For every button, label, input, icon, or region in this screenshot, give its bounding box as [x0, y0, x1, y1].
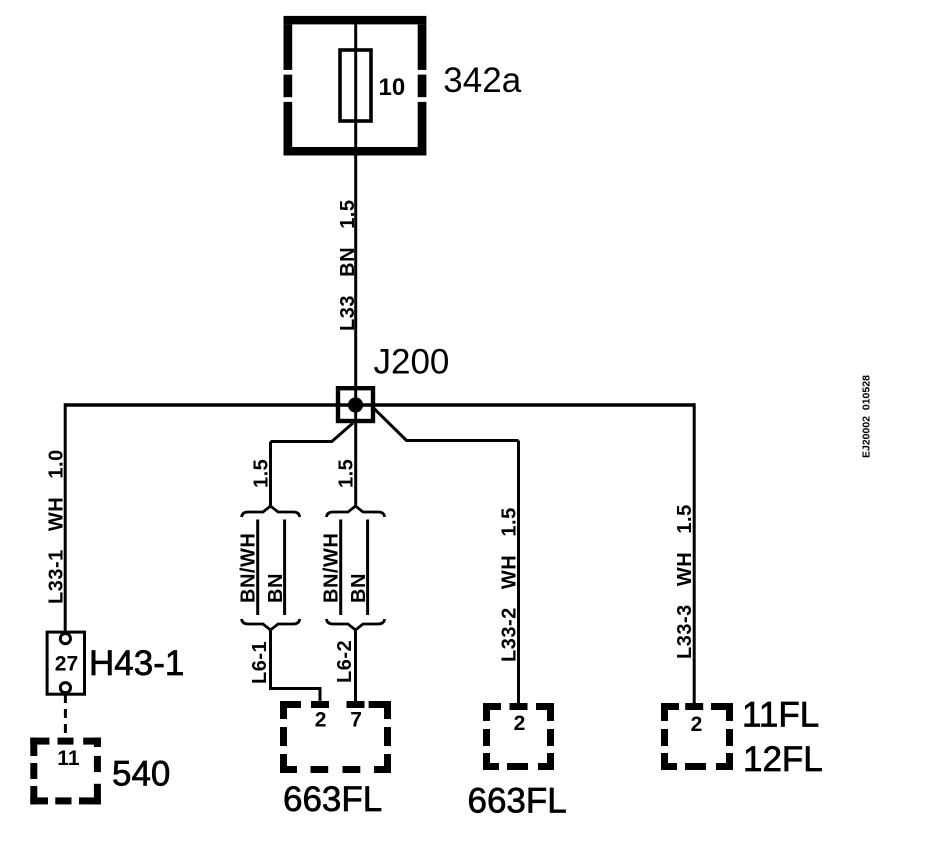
svg-text:342a: 342a: [443, 61, 521, 100]
svg-text:L33 BN 1.5: L33 BN 1.5: [337, 200, 359, 332]
wire vertical L33-2 drop: [517, 441, 520, 705]
svg-text:11FL: 11FL: [742, 696, 819, 735]
wire diagonal from junction to left bundle branch: [271, 423, 354, 442]
svg-text:11: 11: [57, 747, 80, 770]
junction dot: [348, 397, 363, 412]
svg-text:BN/WH: BN/WH: [238, 533, 260, 603]
svg-text:L33-2 WH 1.5: L33-2 WH 1.5: [499, 507, 521, 662]
svg-text:L33-3 WH 1.5: L33-3 WH 1.5: [674, 504, 696, 659]
svg-text:J200: J200: [374, 343, 450, 382]
cable sheath brace top (left bundle): [242, 506, 300, 517]
svg-text:2: 2: [514, 712, 526, 735]
svg-text:2: 2: [691, 713, 703, 736]
svg-text:EJ20002 010528: EJ20002 010528: [861, 375, 873, 458]
wire L6-1 below left bundle: [271, 630, 321, 702]
svg-text:12FL: 12FL: [743, 740, 823, 779]
svg-text:BN/WH: BN/WH: [321, 533, 343, 603]
terminal bar into 540: [58, 738, 74, 745]
conductor BN/WH (left bundle): [256, 520, 259, 616]
svg-text:H43-1: H43-1: [89, 644, 184, 683]
wire vertical L33-3 drop: [693, 403, 696, 704]
svg-text:L6-1: L6-1: [249, 641, 271, 684]
wire diagonal from junction to right L33-2 branch: [373, 408, 519, 441]
conductor BN (right bundle): [366, 520, 369, 616]
svg-text:2: 2: [315, 709, 327, 732]
connector H43-1 body: [47, 632, 84, 694]
fuse box 342a outline: [284, 16, 427, 156]
wire L33 vertical from fuse box through fuse to junction J200: [354, 16, 357, 506]
terminal bar pin 2 into 11FL/12FL box: [685, 703, 703, 710]
svg-text:1.5: 1.5: [336, 459, 358, 488]
component box 663FL left (dashed): [280, 701, 391, 773]
terminal bar pin 7 into 663FL (left): [347, 701, 365, 708]
cable sheath brace top (right bundle): [327, 506, 385, 517]
cable sheath brace bottom (left bundle): [242, 619, 300, 630]
connector H43-1 top terminal circle: [60, 634, 70, 644]
wire L6-2 below right bundle: [354, 630, 357, 702]
connector H43-1 bottom terminal circle: [60, 683, 70, 693]
junction box J200: [338, 388, 373, 421]
svg-text:1.5: 1.5: [251, 459, 273, 488]
fuse element 10: [340, 50, 371, 121]
svg-text:L6-2: L6-2: [334, 640, 356, 683]
svg-text:27: 27: [55, 653, 78, 676]
svg-text:663FL: 663FL: [468, 782, 567, 821]
dashed wire from H43-1 to component 540: [64, 694, 67, 739]
svg-text:540: 540: [112, 755, 170, 794]
svg-text:663FL: 663FL: [283, 780, 382, 819]
main horizontal bus wire: [65, 403, 694, 406]
component box 540 (dashed): [30, 738, 101, 805]
svg-text:10: 10: [379, 74, 406, 101]
wire vertical into left cable bundle: [269, 442, 272, 507]
conductor BN (left bundle): [283, 520, 286, 616]
terminal bar pin 2 into 663FL (right): [510, 703, 528, 710]
conductor BN/WH (right bundle): [339, 520, 342, 616]
cable sheath brace bottom (right bundle): [327, 619, 385, 630]
svg-text:L33-1 WH 1.0: L33-1 WH 1.0: [46, 449, 68, 604]
svg-text:7: 7: [350, 709, 362, 732]
terminal bar pin 2 into 663FL (left): [311, 701, 329, 708]
svg-text:BN: BN: [265, 573, 287, 603]
component box 11FL/12FL (dashed): [661, 703, 733, 770]
component box 663FL right (dashed): [483, 703, 554, 770]
svg-text:BN: BN: [348, 573, 370, 603]
wire branch left: vertical L33-1 drop: [64, 403, 67, 633]
